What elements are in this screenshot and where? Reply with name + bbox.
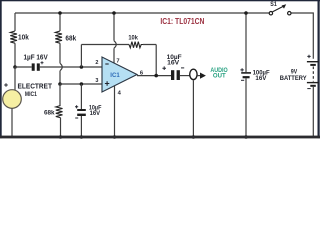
wire output pin6: [137, 75, 171, 77]
wire top rail right segment after switch: [291, 13, 313, 59]
arrow audio out: [200, 73, 206, 79]
node lower 68k at rail: [59, 135, 63, 139]
svg-text:3: 3: [95, 78, 98, 84]
capacitor output minus mark: [181, 67, 184, 69]
node bias chain at rail: [58, 11, 62, 15]
resistor 10k (left bias feed): [10, 31, 17, 43]
wire pin4 to ground rail: [114, 86, 116, 137]
wire node to 1uF left plate: [15, 66, 32, 68]
svg-text:16V: 16V: [167, 60, 180, 67]
battery minus mark: [307, 88, 310, 90]
wire jack sleeve to ground rail: [192, 80, 194, 136]
svg-text:BATTERY: BATTERY: [280, 75, 307, 82]
capacitor 10uF plus mark: [75, 105, 78, 108]
battery cell 1 long plate: [307, 61, 319, 62]
switch S1 left contact: [269, 12, 272, 15]
svg-text:OUT: OUT: [213, 73, 227, 80]
capacitor 10uF (input bias decoupling) plates: [77, 109, 86, 111]
svg-text:68k: 68k: [65, 36, 76, 43]
node 100uF at rail: [244, 11, 248, 15]
battery cell 1 short plate: [310, 64, 316, 66]
capacitor 10uF minus mark: [75, 117, 78, 119]
node 100uF at rail bottom: [244, 135, 248, 139]
svg-text:S1: S1: [270, 1, 277, 8]
node pin4 at rail: [113, 135, 117, 139]
svg-text:16V: 16V: [255, 75, 267, 82]
svg-text:MIC1: MIC1: [25, 91, 37, 98]
electret MIC1 body: [3, 90, 22, 109]
battery plus mark: [307, 55, 310, 58]
svg-text:10k: 10k: [128, 34, 138, 41]
wire bias chain down with hop over pin2 wire: [60, 43, 62, 84]
wire 100uF to ground rail: [245, 78, 247, 136]
capacitor 1uF plus mark: [41, 61, 44, 64]
wire lower 68k to ground rail: [60, 118, 62, 137]
capacitor 100uF minus mark: [241, 79, 244, 81]
resistor 68k (upper bias): [55, 31, 62, 43]
svg-text:1µF 16V: 1µF 16V: [24, 55, 48, 62]
svg-text:ELECTRET: ELECTRET: [18, 83, 53, 90]
capacitor 100uF plus mark: [240, 68, 243, 71]
svg-text:10k: 10k: [18, 34, 29, 41]
wire jack to arrow: [197, 75, 201, 77]
wire mic bottom to ground rail: [11, 108, 13, 136]
wire left vertical to mic node: [14, 43, 16, 67]
resistor 68k (lower bias): [56, 106, 63, 118]
wire down to electret mic: [14, 67, 16, 91]
output jack terminal: [190, 69, 197, 79]
wire left vertical from rail to R 10k: [14, 13, 16, 31]
mic plus polarity mark: [4, 83, 8, 87]
wire output cap to jack: [180, 75, 190, 77]
svg-text:16V: 16V: [90, 110, 101, 117]
wire bottom ground rail: [0, 136, 320, 139]
capacitor 100uF plates: [241, 72, 251, 74]
resistor 10k (feedback): [129, 42, 143, 48]
battery cell 2 long plate: [307, 82, 319, 83]
wire pin3 node down to 10uF: [80, 84, 82, 109]
node 10uF at rail: [80, 135, 84, 139]
svg-text:2: 2: [95, 60, 98, 66]
switch S1 right contact: [288, 12, 291, 15]
wire feedback horizontal with hop at pin7: [81, 45, 156, 76]
svg-text:IC1: IC1: [110, 72, 120, 79]
wire pin3 horizontal: [60, 83, 102, 85]
capacitor 1uF plates: [32, 63, 35, 70]
battery dashed link: [312, 67, 314, 82]
node bias to pin3: [58, 82, 62, 86]
wire bias chain from rail: [59, 13, 61, 31]
op-amp non-inverting mark: [105, 81, 109, 85]
wire 1uF to pin2 (crosses bias chain): [40, 66, 102, 68]
node pin2 feedback junction: [80, 65, 84, 69]
capacitor 10uF output plates: [171, 70, 174, 80]
wire pin7 from rail down with feedback hop: [114, 13, 116, 64]
wire feedback vertical up: [80, 45, 82, 68]
node mic/cap junction: [13, 65, 17, 69]
svg-text:7: 7: [116, 59, 119, 65]
switch S1 arm arrowhead: [282, 4, 287, 8]
wire bias chain to lower 68k: [59, 84, 61, 106]
wire top supply rail: [15, 12, 269, 14]
op-amp inverting mark: [105, 63, 108, 65]
op-amp IC1 triangle: [102, 57, 137, 92]
node jack at rail: [192, 135, 196, 139]
node output feedback junction: [154, 74, 158, 78]
node pin3 cap junction: [80, 82, 84, 86]
switch S1 arm: [272, 6, 283, 12]
capacitor output plus mark: [162, 66, 166, 70]
svg-text:68k: 68k: [44, 110, 55, 117]
wire 100uF from rail: [245, 13, 247, 72]
svg-text:IC1: TL071CN: IC1: TL071CN: [160, 16, 204, 26]
wire 10uF to ground rail: [80, 116, 82, 137]
node pin7 at rail: [112, 11, 116, 15]
wire battery to ground rail: [312, 87, 314, 137]
battery cell 2 short plate: [310, 85, 316, 87]
